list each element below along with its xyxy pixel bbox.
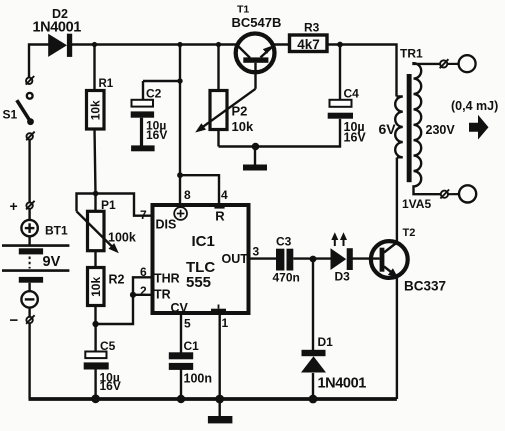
capacitor C4	[328, 87, 367, 145]
svg-text:R1: R1	[99, 78, 114, 90]
svg-text:THR: THR	[154, 271, 180, 285]
wire D2 cathode to T1 left	[72, 43, 238, 45]
node bottom rail pin1	[215, 395, 224, 404]
svg-text:C5: C5	[100, 339, 116, 353]
svg-text:4: 4	[221, 188, 228, 202]
svg-text:10k: 10k	[232, 119, 254, 134]
diode D1	[301, 335, 366, 392]
svg-text:6V: 6V	[379, 121, 397, 137]
capacitor C5	[84, 339, 121, 393]
svg-text:100k: 100k	[108, 231, 136, 245]
svg-text:5: 5	[184, 317, 191, 331]
wire T1 right to R3	[273, 43, 290, 45]
wire ground stub mid	[254, 147, 256, 165]
svg-text:1N4001: 1N4001	[33, 20, 82, 36]
svg-text:DIS: DIS	[156, 217, 177, 231]
svg-text:16V: 16V	[344, 131, 367, 145]
svg-text:D1: D1	[318, 335, 334, 349]
node A junction R1/P1/DIS	[93, 191, 99, 197]
wire battery minus to bottom rail	[28, 323, 30, 399]
svg-text:BC337: BC337	[404, 278, 446, 293]
svg-text:+: +	[10, 198, 18, 214]
wire top-left from S1 to D2 anode	[29, 45, 49, 79]
svg-text:230V: 230V	[426, 123, 456, 137]
resistor R2	[88, 268, 125, 306]
transformer labels	[379, 47, 456, 211]
capacitor C1	[169, 339, 212, 386]
svg-text:(0,4 mJ): (0,4 mJ)	[451, 99, 498, 113]
transformer TR1 primary 6V winding	[395, 97, 403, 158]
wire R3 to transformer primary top	[329, 45, 397, 97]
transistor T1	[232, 4, 282, 89]
svg-text:16V: 16V	[146, 128, 167, 142]
svg-text:C4: C4	[344, 87, 360, 101]
svg-text:1N4001: 1N4001	[318, 375, 367, 391]
ground below C2	[131, 145, 155, 151]
svg-text:2: 2	[140, 284, 147, 298]
wire supply line x181 pin 8	[179, 45, 181, 204]
wire C3 to LED D3	[293, 257, 331, 259]
wire junction to R1 top	[93, 45, 95, 92]
svg-text:3: 3	[253, 244, 260, 258]
output energy label and arrow	[451, 99, 498, 140]
svg-text:D3: D3	[335, 269, 351, 283]
potentiometer P1	[77, 198, 136, 254]
svg-text:T1: T1	[237, 4, 249, 16]
wire R2 to node B	[94, 306, 96, 325]
svg-text:7: 7	[140, 208, 147, 222]
node junction D1 branch	[310, 256, 317, 263]
wire pin 5 to bottom rail	[180, 315, 182, 399]
wire R1 bottom to node A	[95, 129, 96, 211]
svg-text:TR: TR	[154, 287, 171, 301]
wire C5 to bottom rail	[94, 370, 96, 400]
wire pin 4 link	[180, 175, 219, 203]
node junction top at pin8 line	[177, 42, 182, 47]
output terminal bottom	[440, 185, 476, 202]
transformer TR1 core	[407, 74, 412, 182]
wire node B to THR/TR	[96, 277, 151, 324]
svg-text:10k: 10k	[89, 100, 103, 120]
ground below P2 rail	[243, 165, 267, 171]
node junction pin4 branch	[177, 172, 183, 178]
svg-text:T2: T2	[403, 227, 416, 239]
capacitor C3	[273, 235, 300, 285]
svg-text:4k7: 4k7	[297, 37, 320, 52]
wire TR stub pin 2	[133, 294, 151, 296]
svg-text:S1: S1	[3, 108, 18, 122]
svg-text:BT1: BT1	[45, 224, 68, 238]
svg-text:CV: CV	[171, 301, 189, 315]
wire C2 tap	[143, 81, 180, 100]
wire pin 1 to bottom rail	[218, 315, 220, 399]
node B junction R2/C5/TR	[92, 321, 98, 327]
svg-text:BC547B: BC547B	[232, 15, 282, 30]
wire D1 branch down	[312, 259, 314, 399]
output terminal top	[440, 55, 476, 72]
wire node A to P1 wiper	[77, 194, 96, 212]
ground main bottom	[208, 416, 233, 423]
node junction mid rail ground	[252, 143, 260, 151]
resistor R1	[87, 78, 114, 129]
svg-text:100n: 100n	[184, 372, 213, 386]
svg-text:P2: P2	[232, 104, 248, 119]
wire S1 to battery plus	[28, 140, 30, 203]
svg-text:OUT: OUT	[222, 252, 249, 266]
wire LED to T2 base	[353, 257, 380, 259]
capacitor C2	[131, 87, 168, 142]
IC op-amp timer U1 IC1 TLC555	[140, 188, 260, 331]
svg-text:470n: 470n	[273, 271, 300, 285]
svg-text:C1: C1	[184, 339, 200, 353]
battery BT1	[2, 198, 69, 329]
node junction at R3 right	[337, 42, 343, 48]
wire pin 3 to C3	[251, 257, 277, 259]
wire node B to C5	[94, 324, 96, 352]
transformer TR1 secondary 230V winding	[414, 63, 442, 194]
resistor R3	[290, 21, 328, 53]
wire T2 collector to transformer	[396, 158, 398, 243]
wire P1 to R2	[94, 251, 96, 268]
switch S1	[3, 76, 35, 140]
node TR junction	[130, 292, 136, 298]
node junction top at R1	[92, 42, 97, 47]
wire T2 emitter to bottom rail	[396, 277, 398, 399]
node junction C2 tap	[177, 78, 182, 83]
svg-text:IC1: IC1	[192, 233, 215, 250]
svg-text:8: 8	[184, 188, 191, 202]
LED D3	[331, 232, 353, 283]
wire P2 top stub	[217, 45, 219, 91]
svg-text:16V: 16V	[100, 379, 121, 393]
svg-text:−: −	[10, 312, 19, 329]
transistor T2	[371, 227, 446, 293]
node bottom rail C5	[91, 394, 100, 403]
svg-text:9V: 9V	[43, 254, 61, 270]
svg-text:C3: C3	[276, 235, 292, 249]
wire mid rail to C4	[219, 119, 341, 147]
svg-text:R: R	[215, 209, 225, 224]
svg-text:1: 1	[222, 316, 229, 330]
svg-text:R2: R2	[109, 273, 125, 287]
svg-text:6: 6	[140, 265, 147, 279]
wire C4 top stub	[339, 45, 341, 100]
node bottom rail D1	[309, 395, 318, 404]
svg-text:10k: 10k	[89, 277, 103, 297]
svg-text:TR1: TR1	[400, 47, 423, 61]
svg-text:C2: C2	[146, 87, 162, 101]
diode D2	[33, 7, 82, 57]
node bottom rail pin5	[177, 395, 185, 403]
wire P2 bottom to mid rail	[217, 130, 219, 147]
node junction top at P2	[216, 42, 221, 47]
svg-text:P1: P1	[101, 198, 116, 212]
potentiometer P2	[195, 89, 255, 134]
svg-text:1VA5: 1VA5	[402, 197, 431, 211]
bottom rail wire	[29, 397, 397, 401]
svg-text:555: 555	[186, 274, 211, 291]
wire ground stub bottom	[218, 399, 220, 416]
svg-text:R3: R3	[304, 21, 320, 35]
wire node A to DIS pin 7	[96, 194, 151, 216]
wire C2 to ground	[140, 118, 143, 146]
